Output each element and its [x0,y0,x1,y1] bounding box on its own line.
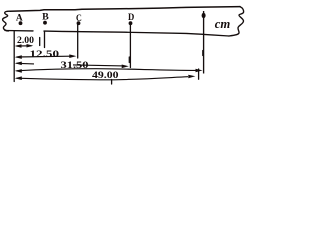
dimension arrow 49.00 [15,69,203,73]
svg-text:49.00: 49.00 [92,70,119,80]
extension line under C [77,25,79,59]
point A dot [19,21,23,25]
extension tick right of 2.00 [39,38,41,46]
small stray tick below bottom arrow [111,80,113,85]
meter stick bottom edge middle [44,31,203,34]
mark line thick part at 49 cm [202,51,204,56]
extension line under D [129,25,131,68]
dimension arrow 2.00 double-headed [15,44,34,48]
meter stick top edge [10,7,240,12]
point B dot [43,21,47,25]
49.00 cm mark diamond [202,13,206,18]
dimension arrow 31.50 right segment [73,65,124,66]
dimension arrow 31.50 left segment [15,62,129,69]
point D dot [129,21,133,25]
extension line thick part under D [128,57,130,63]
extension line under B [44,31,46,47]
extension line at A / left reference [13,31,15,81]
point C dot [77,21,81,25]
svg-text:12.50: 12.50 [30,50,60,60]
49.00 cm mark line on stick [203,11,205,74]
meter stick bottom edge left part [5,30,33,32]
dimension arrow 12.50 [15,54,77,59]
meter stick bottom edge right part [204,34,229,36]
meter stick torn right end [229,7,244,36]
meter stick torn left end [3,11,10,31]
bottom unlabeled dimension arrow [15,75,196,80]
bottom right short tick [198,69,200,79]
svg-text:cm: cm [215,16,231,31]
